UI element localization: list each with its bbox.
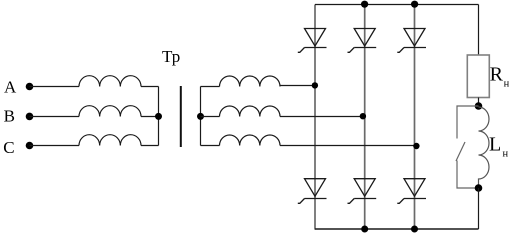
secondary winding a [220,76,281,87]
resistor Rн [467,55,489,98]
terminal A [26,83,34,91]
svg-text:н: н [504,78,510,89]
primary star junction [155,113,162,120]
bridge leg 3 vertical [414,5,416,230]
node top rail leg3 [411,1,418,8]
wire secondary bus to winding a [201,86,220,88]
wire primary C to star bus [141,145,159,147]
svg-text:C: C [3,138,14,157]
wire resistor to node [478,98,480,107]
inductor Lн [479,107,490,188]
node resistor-inductor junction [475,102,483,110]
node bottom rail leg3 [411,226,418,233]
node leg3-phase c junction [413,143,419,149]
svg-text:R: R [490,64,504,86]
top dc rail [315,4,479,6]
node top rail leg2 [361,1,368,8]
wire primary B to star bus [141,116,159,118]
bottom dc rail [315,228,479,230]
bridge leg 1 vertical [314,5,316,230]
secondary star bus [200,87,202,146]
wire secondary c to bridge leg 3 [280,145,417,147]
transformer core bar [180,86,182,147]
thyristor VS4 [298,179,327,204]
wire secondary bus to winding c [201,145,220,147]
thyristor VS3 [397,29,426,53]
terminal B [26,113,34,121]
thyristor VS1 [298,29,327,53]
wire secondary bus to winding b [201,116,220,118]
primary winding A [79,76,141,87]
wire phase A input [30,86,80,88]
wire phase C input [30,145,80,147]
wire top rail to load resistor [478,5,480,56]
wire secondary b to bridge leg 2 [280,116,365,118]
secondary winding c [220,135,281,146]
terminal C [26,142,34,150]
node bottom rail leg2 [361,226,368,233]
svg-text:L: L [489,134,501,156]
node leg2-phase b junction [360,113,366,119]
svg-text:н: н [503,148,509,159]
switch blade [456,142,465,161]
node leg1-phase a junction [312,82,318,88]
svg-text:Тр: Тр [162,47,180,66]
thyristor VS6 [397,179,426,204]
wire secondary a to bridge leg 1 [280,85,316,87]
secondary star junction [197,113,204,120]
svg-text:B: B [4,107,15,126]
thyristor VS2 [348,29,377,53]
secondary winding b [220,106,281,117]
wire primary A to star bus [141,86,159,88]
node inductor bottom junction [475,184,483,192]
primary winding C [79,135,141,146]
svg-text:A: A [4,78,17,97]
switch bottom wire [457,161,479,189]
wire phase B input [30,116,80,118]
wire load to bottom rail [478,188,480,229]
primary winding B [79,106,141,117]
switch across inductor: top feed wire [457,106,479,139]
thyristor VS5 [348,179,377,204]
primary star bus [158,87,160,146]
bridge leg 2 vertical [364,5,366,230]
